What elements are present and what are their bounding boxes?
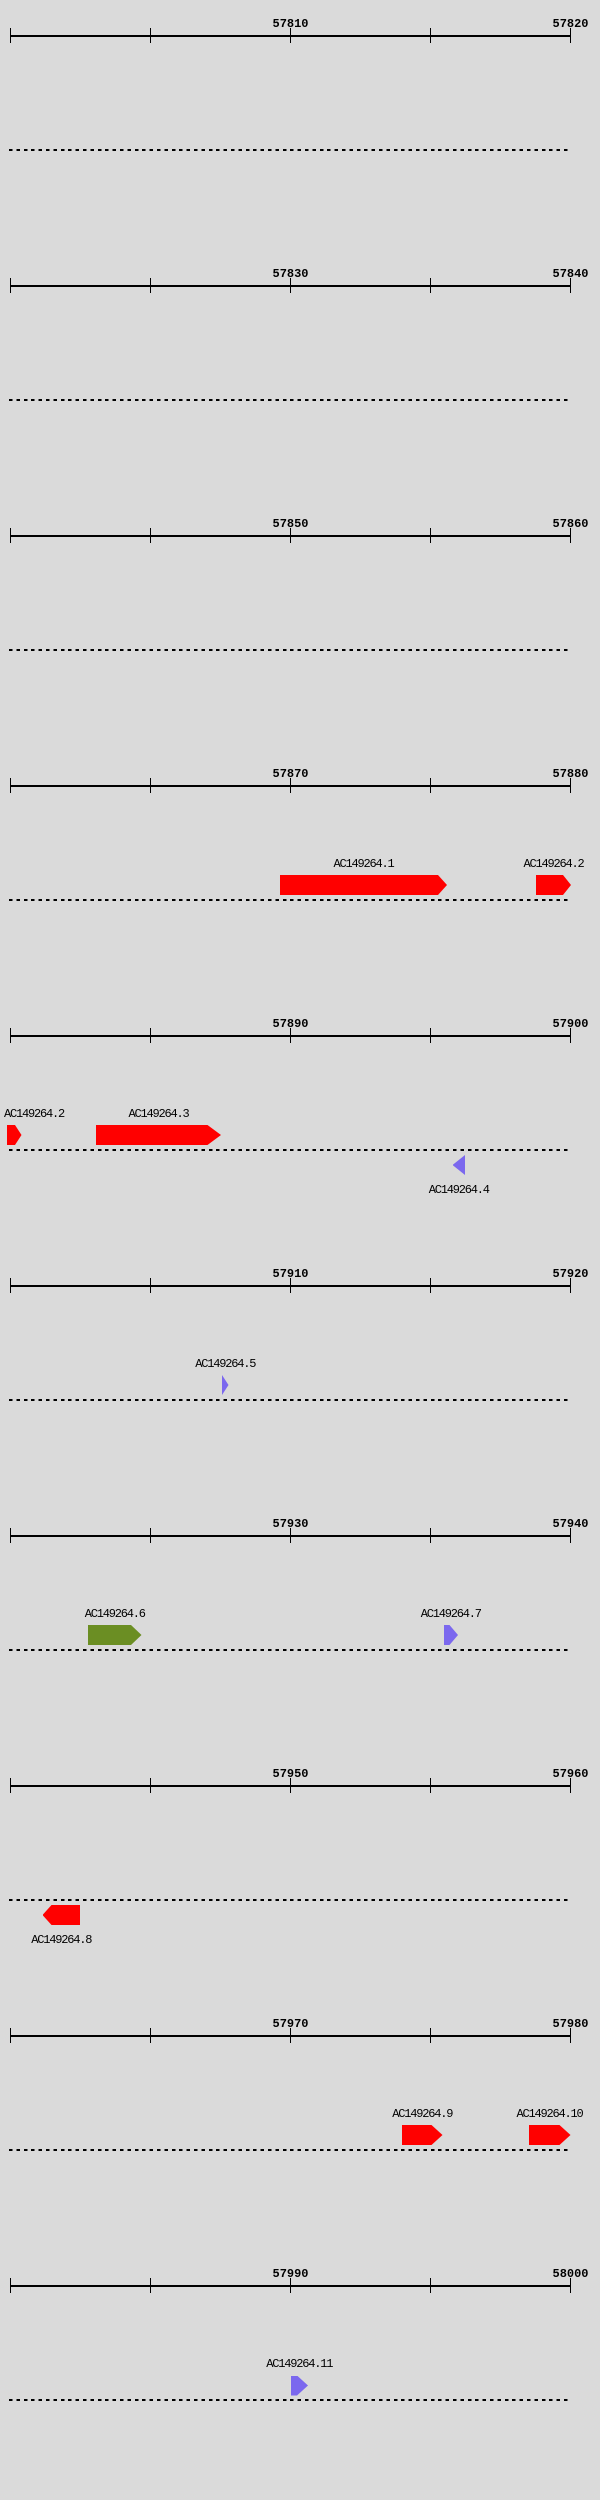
gene AC149264.6 label xyxy=(85,1608,145,1621)
panel 1 tick 57800 xyxy=(10,28,12,44)
panel 9 center dashed line xyxy=(9,2149,571,2151)
panel 3 center dashed line xyxy=(9,649,571,651)
gene AC149264.5 label xyxy=(195,1358,255,1371)
panel 9 tick 57960 xyxy=(10,2028,12,2044)
panel 6 ruler label 57910 xyxy=(273,1268,309,1281)
panel 10 tick 57995 xyxy=(430,2278,432,2294)
panel 1 ruler label 57820 xyxy=(553,18,589,31)
panel 3 ruler label 57850 xyxy=(273,518,309,531)
panel 9 tick 57965 xyxy=(150,2028,152,2044)
panel 2 ruler label 57830 xyxy=(273,268,309,281)
panel 5 ruler line (57880-57900) xyxy=(10,1035,571,1037)
panel 10 ruler label 58000 xyxy=(553,2268,589,2281)
gene AC149264.5 arrowhead xyxy=(222,1375,229,1395)
panel 3 tick 57840 xyxy=(10,528,12,544)
gene AC149264.4 label xyxy=(429,1184,489,1197)
panel 7 tick 57920 xyxy=(10,1528,12,1544)
panel 5 tick 57890 xyxy=(290,1028,292,1044)
gene AC149264.4 arrowhead (reverse strand) xyxy=(453,1155,466,1175)
panel 7 center dashed line xyxy=(9,1649,571,1651)
gene AC149264.11 arrow xyxy=(291,2376,309,2396)
panel 9 tick 57975 xyxy=(430,2028,432,2044)
panel 4 center dashed line xyxy=(9,899,571,901)
panel 5 tick 57880 xyxy=(10,1028,12,1044)
gene AC149264.2 label xyxy=(4,1108,64,1121)
gene AC149264.10 label xyxy=(517,2108,583,2121)
panel 7 ruler label 57940 xyxy=(553,1518,589,1531)
panel 7 tick 57925 xyxy=(150,1528,152,1544)
panel 10 tick 57990 xyxy=(290,2278,292,2294)
panel 5 ruler label 57900 xyxy=(553,1018,589,1031)
panel 3 tick 57855 xyxy=(430,528,432,544)
panel 1 ruler line (57800-57820) xyxy=(10,35,571,37)
panel 10 center dashed line xyxy=(9,2399,571,2401)
panel 5 tick 57895 xyxy=(430,1028,432,1044)
panel 4 tick 57870 xyxy=(290,778,292,794)
panel 8 ruler label 57950 xyxy=(273,1768,309,1781)
panel 6 tick 57915 xyxy=(430,1278,432,1294)
panel 1 tick 57805 xyxy=(150,28,152,44)
panel 8 center dashed line xyxy=(9,1899,571,1901)
gene AC149264.2 arrow xyxy=(536,875,571,895)
panel 7 ruler label 57930 xyxy=(273,1518,309,1531)
panel 6 ruler label 57920 xyxy=(553,1268,589,1281)
gene AC149264.2 arrow xyxy=(7,1125,22,1145)
panel 2 tick 57835 xyxy=(430,278,432,294)
panel 2 center dashed line xyxy=(9,399,571,401)
panel 9 tick 57970 xyxy=(290,2028,292,2044)
panel 3 ruler label 57860 xyxy=(553,518,589,531)
panel 4 tick 57865 xyxy=(150,778,152,794)
panel 4 tick 57880 xyxy=(570,778,572,794)
panel 9 ruler label 57980 xyxy=(553,2018,589,2031)
panel 10 ruler label 57990 xyxy=(273,2268,309,2281)
panel 8 tick 57945 xyxy=(150,1778,152,1794)
panel 3 tick 57845 xyxy=(150,528,152,544)
panel 2 tick 57830 xyxy=(290,278,292,294)
panel 4 ruler label 57870 xyxy=(273,768,309,781)
panel 4 ruler line (57860-57880) xyxy=(10,785,571,787)
panel 6 tick 57900 xyxy=(10,1278,12,1294)
panel 1 center dashed line xyxy=(9,149,571,151)
panel 6 tick 57910 xyxy=(290,1278,292,1294)
panel 9 tick 57980 xyxy=(570,2028,572,2044)
panel 10 tick 57985 xyxy=(150,2278,152,2294)
panel 10 ruler line (57980-58000) xyxy=(10,2285,571,2287)
panel 6 center dashed line xyxy=(9,1399,571,1401)
gene AC149264.9 label xyxy=(392,2108,452,2121)
panel 7 ruler line (57920-57940) xyxy=(10,1535,571,1537)
gene AC149264.9 arrow xyxy=(402,2125,443,2145)
panel 2 tick 57825 xyxy=(150,278,152,294)
panel 4 tick 57860 xyxy=(10,778,12,794)
panel 8 tick 57960 xyxy=(570,1778,572,1794)
panel 7 tick 57935 xyxy=(430,1528,432,1544)
panel 8 tick 57955 xyxy=(430,1778,432,1794)
panel 1 tick 57815 xyxy=(430,28,432,44)
panel 7 tick 57940 xyxy=(570,1528,572,1544)
gene AC149264.6 arrow xyxy=(88,1625,142,1645)
panel 5 tick 57900 xyxy=(570,1028,572,1044)
gene AC149264.11 label xyxy=(266,2358,332,2371)
panel 7 tick 57930 xyxy=(290,1528,292,1544)
panel 8 tick 57950 xyxy=(290,1778,292,1794)
gene AC149264.1 arrow xyxy=(280,875,447,895)
panel 1 tick 57820 xyxy=(570,28,572,44)
panel 6 tick 57905 xyxy=(150,1278,152,1294)
panel 2 ruler line (57820-57840) xyxy=(10,285,571,287)
panel 3 ruler line (57840-57860) xyxy=(10,535,571,537)
panel 9 ruler label 57970 xyxy=(273,2018,309,2031)
panel 3 tick 57850 xyxy=(290,528,292,544)
panel 2 tick 57820 xyxy=(10,278,12,294)
gene AC149264.3 arrow xyxy=(96,1125,221,1145)
panel 2 tick 57840 xyxy=(570,278,572,294)
panel 4 tick 57875 xyxy=(430,778,432,794)
gene AC149264.2 label xyxy=(524,858,584,871)
panel 10 tick 57980 xyxy=(10,2278,12,2294)
panel 2 ruler label 57840 xyxy=(553,268,589,281)
panel 4 ruler label 57880 xyxy=(553,768,589,781)
panel 1 ruler label 57810 xyxy=(273,18,309,31)
panel 6 ruler line (57900-57920) xyxy=(10,1285,571,1287)
panel 8 tick 57940 xyxy=(10,1778,12,1794)
panel 5 tick 57885 xyxy=(150,1028,152,1044)
panel 1 tick 57810 xyxy=(290,28,292,44)
panel 3 tick 57860 xyxy=(570,528,572,544)
gene AC149264.8 arrow (reverse strand) xyxy=(43,1905,81,1925)
panel 10 tick 58000 xyxy=(570,2278,572,2294)
panel 8 ruler label 57960 xyxy=(553,1768,589,1781)
panel 6 tick 57920 xyxy=(570,1278,572,1294)
gene AC149264.8 label xyxy=(31,1934,91,1947)
gene AC149264.10 arrow xyxy=(529,2125,571,2145)
gene AC149264.1 label xyxy=(334,858,394,871)
panel 5 ruler label 57890 xyxy=(273,1018,309,1031)
panel 9 ruler line (57960-57980) xyxy=(10,2035,571,2037)
gene AC149264.7 label xyxy=(421,1608,481,1621)
panel 8 ruler line (57940-57960) xyxy=(10,1785,571,1787)
gene AC149264.3 label xyxy=(129,1108,189,1121)
panel 5 center dashed line xyxy=(9,1149,571,1151)
gene AC149264.7 arrow xyxy=(444,1625,459,1645)
